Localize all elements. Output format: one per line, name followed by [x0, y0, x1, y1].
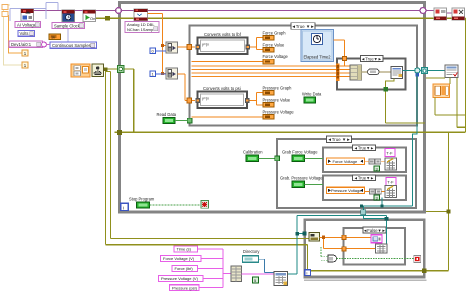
ToF icon 1 (magenta): [385, 149, 395, 157]
wire orange left frame: [9, 15, 23, 53]
DAQmx Start Task VI: [83, 10, 96, 22]
case selector (inner 1): [353, 145, 376, 151]
magenta tunnel dev: [42, 42, 47, 47]
wire orange formula1 outputs: [192, 38, 263, 62]
junction orange b: [161, 72, 164, 75]
local variable Pressure Voltage: [327, 187, 365, 193]
constant green 3 (case2): [374, 195, 380, 201]
teal junction dots: [380, 204, 383, 207]
wire wait to loop: [103, 69, 134, 132]
svg-text:Time (s): Time (s): [177, 247, 192, 252]
DAQmx Stop Task VI: [434, 8, 447, 20]
case structure Calibration (outer True case): [277, 139, 416, 208]
case selector label (top case True): [291, 23, 315, 29]
case structure (True, acquisition processing): [190, 26, 418, 126]
wire orange index2 out to case: [178, 74, 196, 101]
svg-text:i: i: [307, 271, 308, 276]
conditional terminal (loop1): [201, 201, 209, 209]
constant green 3 (case1): [374, 166, 380, 172]
table express icon 1: [385, 158, 397, 170]
boolean terminal Grab Force Voltage: [292, 155, 305, 161]
wire green stop program: [150, 204, 202, 206]
boolean terminal Calibration: [246, 155, 259, 161]
wire pink concat out: [242, 273, 275, 275]
write text icon (magenta, false case): [371, 235, 382, 243]
junction error middle: [117, 130, 122, 135]
svg-text:Force Voltage (V): Force Voltage (V): [163, 256, 195, 261]
wire olive write error down: [386, 79, 426, 124]
tunnel task right border: [420, 8, 426, 14]
wire cream left frame: [4, 5, 23, 65]
svg-text:Pressure Voltage (V): Pressure Voltage (V): [161, 276, 199, 281]
string constant Pressure Voltage (V): [159, 276, 204, 282]
constant blue 1 (b): [150, 71, 156, 77]
wire orange long rails to build array: [192, 66, 350, 77]
Elapsed Time express VI: [301, 30, 334, 62]
constant green transpose: [253, 277, 259, 283]
boolean terminal Grab Pressure Voltage: [292, 181, 305, 187]
constant 1k (orange filled): [49, 34, 61, 40]
boolean terminal Stop Program: [137, 202, 150, 208]
formula node 2 (Converts volts to psi): [195, 86, 249, 108]
Wait Until Next ms Multiple VI: [92, 64, 104, 77]
wire orange formula2 outputs: [192, 93, 263, 117]
string constant Time (s): [174, 246, 198, 252]
orange tunnel bottom case: [342, 235, 346, 239]
wire error loop2 out to rail: [308, 270, 449, 272]
Index Array VI 2: [166, 68, 178, 79]
DAQmx Read VI: [134, 9, 148, 21]
svg-text:Directory: Directory: [243, 249, 260, 254]
inner case 2 (Grab pressure True): [323, 176, 406, 201]
wire pink string bus: [198, 249, 232, 288]
svg-text:Force (lbf): Force (lbf): [175, 266, 194, 271]
boolean terminal Read Data: [163, 118, 175, 124]
wire orange column to build array: [339, 66, 350, 77]
while loop (bottom logging loop): [305, 220, 425, 277]
inner case 1 (Grab force True): [323, 148, 406, 173]
Write File VI (in loop): [391, 67, 403, 79]
tunnel orange case left b: [187, 98, 192, 103]
case selector (inner 2): [353, 175, 376, 181]
wire orange local1 to convert: [365, 160, 386, 162]
string constant Pressure (psi): [170, 285, 200, 291]
dropdown Continuous Samples: [50, 42, 97, 48]
wire green calibration: [259, 157, 277, 159]
case selector (write): [361, 56, 384, 62]
path constant Directory: [243, 256, 259, 263]
wire teal down to calibration: [413, 72, 418, 206]
wire green dotted and inputs: [321, 247, 328, 260]
wire green read data: [175, 120, 188, 122]
concatenate strings node: [231, 266, 242, 282]
wire olive icon to bundle: [426, 78, 466, 115]
Build Array node: [350, 65, 362, 80]
wire orange format to case: [319, 237, 375, 248]
selector terminal on case: [187, 118, 192, 123]
wire error (right vertical rail): [448, 132, 450, 270]
wire build to pill to write: [362, 71, 392, 73]
wire error (olive, top rail): [95, 18, 466, 132]
dropdown Analog 1D DBL NChan 1Samp: [125, 22, 159, 33]
wire orange index1 out to case: [178, 46, 196, 48]
constant 1 (b): [22, 62, 28, 68]
selector terminal calibration case: [275, 156, 280, 161]
terminal Pressure Graph: [263, 91, 274, 96]
wire path to write vi: [259, 259, 275, 272]
Concatenate pill: [368, 69, 380, 75]
DAQmx Timing (Sample Clock) VI: [62, 10, 75, 22]
conditional terminal (loop2, red stop): [414, 256, 421, 263]
case selector (False): [363, 227, 386, 233]
tiny constants far top-left: [2, 5, 8, 10]
terminal Pressure Voltage: [263, 115, 274, 120]
tunnel orange case left a: [187, 45, 192, 50]
dropdown Dev1/ai0:1: [9, 41, 43, 47]
constant blue 0 (a): [150, 48, 156, 54]
svg-text:Pressure (psi): Pressure (psi): [172, 285, 198, 290]
write close file VI (right): [445, 65, 458, 78]
terminal Force Value: [263, 48, 274, 53]
string constant Force (lbf): [172, 266, 198, 272]
case selector (calibration): [327, 136, 352, 143]
wire orange local2 to convert: [365, 190, 386, 192]
format into string node (bottom loop): [309, 233, 320, 241]
wire error (long middle rail): [115, 131, 466, 133]
iteration terminal loop2: [305, 270, 311, 276]
ToF icon 2 (magenta): [386, 178, 396, 186]
wire magenta dev to continuous: [46, 44, 50, 46]
wire lavender top: [10, 3, 68, 43]
tunnel teal case right: [415, 68, 420, 73]
dropdown Volts: [18, 31, 35, 37]
tunnel error loop left: [118, 66, 125, 73]
local variable Force Voltage: [327, 158, 365, 164]
tunnel task left border: [116, 8, 122, 14]
inner case (write True, top): [337, 59, 406, 90]
bundle node (orange, right): [433, 84, 450, 98]
terminal Force Voltage: [263, 59, 274, 64]
wire error loop1 out to rail: [426, 211, 449, 213]
wire teal calibration outputs: [288, 198, 413, 275]
table icon (false case): [376, 244, 388, 253]
DAQmx Clear Task VI: [452, 8, 465, 20]
wire error left drop rails: [106, 69, 310, 271]
junction error rail: [446, 209, 450, 213]
while loop (main acquisition loop): [120, 3, 425, 213]
junction wait: [104, 67, 108, 71]
terminal Force Graph: [263, 36, 274, 41]
wire green grab pressure: [305, 183, 324, 185]
formula node 1 (Converts volts to lbf): [195, 32, 250, 54]
AND gate: [328, 255, 337, 262]
dropdown AI Voltage: [15, 22, 41, 28]
boolean terminal Write Data: [304, 97, 316, 103]
wire teal write out: [403, 70, 446, 72]
wire green grab force: [305, 157, 324, 159]
convert icon 1: [369, 159, 381, 164]
wire orange elapsed out: [334, 40, 351, 66]
wire DAQmx task (purple, top rail): [33, 11, 452, 14]
wire blue consts: [156, 51, 166, 74]
terminal Pressure Value: [263, 103, 274, 108]
DAQmx Create Channel VI: [21, 9, 34, 21]
case structure (False, write case): [344, 228, 406, 265]
tunnel teal loop right: [422, 68, 428, 74]
string constant Force Voltage (V): [161, 256, 202, 262]
junction error top: [105, 16, 110, 20]
Write Delimited Spreadsheet VI: [274, 272, 288, 286]
cluster constant (orange frame): [71, 64, 90, 77]
table express icon 2: [385, 186, 397, 198]
constant 1 (a): [22, 50, 28, 56]
junction orange a: [161, 44, 164, 47]
convert icon 2: [370, 189, 382, 194]
wire green dotted and output: [337, 258, 414, 260]
orange junction column: [336, 64, 339, 82]
junction error rail2: [422, 268, 427, 273]
iteration terminal loop1: [121, 203, 128, 210]
wire orange read output down: [148, 14, 167, 74]
Index Array VI 1: [166, 42, 178, 53]
junction green case bottom: [383, 87, 388, 92]
dropdown Sample Clock: [52, 23, 85, 29]
